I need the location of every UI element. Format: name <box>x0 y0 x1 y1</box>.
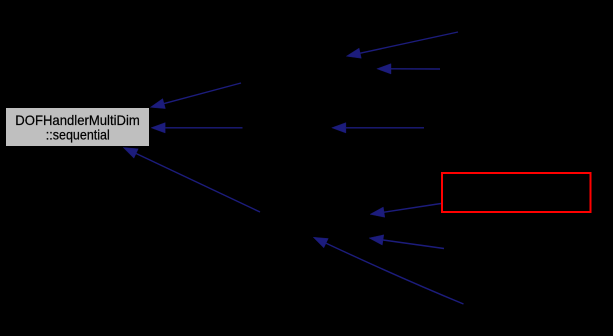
arrow edge 9 curved <box>313 237 463 304</box>
arrow edge 3 <box>150 83 241 109</box>
arrow edge 5 <box>332 123 424 133</box>
arrow edge 4 <box>151 123 243 133</box>
arrow edge 1 <box>346 32 458 58</box>
node box (red, truncated graph) <box>442 173 591 212</box>
svg-text:::sequential: ::sequential <box>46 127 110 142</box>
node box DOFHandlerMultiDim::sequential <box>6 108 150 147</box>
arrow edge 8 <box>369 235 444 249</box>
arrow edge 2 <box>377 64 440 74</box>
arrow edge 6 <box>123 148 260 213</box>
svg-text:DOFHandlerMultiDim: DOFHandlerMultiDim <box>15 113 140 128</box>
arrow edge 7 from red node <box>370 204 441 218</box>
